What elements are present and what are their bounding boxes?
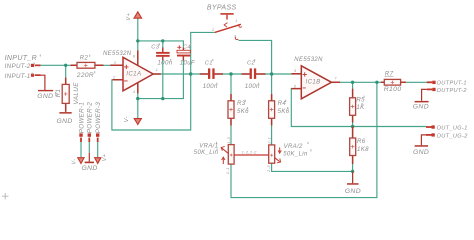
pin OUT_UG-1: [426, 125, 435, 128]
wire C2 to IC1B pin5: [256, 73, 301, 75]
svg-text:8: 8: [133, 53, 136, 58]
origin cross mark: [2, 193, 8, 199]
svg-text:C2: C2: [247, 60, 256, 66]
wire C1 to C2: [214, 73, 249, 75]
wire pot1 bottom rail up to output: [231, 82, 377, 197]
svg-text:2: 2: [211, 27, 215, 32]
wire switch pin3 to R4 node: [239, 40, 272, 74]
svg-text:5: 5: [294, 68, 297, 73]
svg-text:GND: GND: [413, 149, 429, 156]
svg-text:R4: R4: [278, 100, 287, 107]
svg-text:R100: R100: [384, 86, 402, 93]
svg-text:100n: 100n: [245, 83, 260, 90]
svg-text:OUT_UG-2: OUT_UG-2: [437, 133, 469, 139]
svg-text:NE5532N: NE5532N: [294, 57, 323, 63]
wire R1 column: [65, 65, 67, 78]
ground GND at POWER-2: [88, 153, 90, 162]
potentiometer VRA/1: [194, 137, 269, 175]
potentiometer VRA/2: [266, 137, 308, 173]
svg-text:R6: R6: [357, 138, 366, 145]
svg-text:GND: GND: [413, 103, 429, 110]
wire pot2 bottom to R6 bottom node: [272, 163, 353, 171]
wire IC1B feedback to OUT_UG-1: [291, 89, 426, 127]
svg-text:V-: V-: [71, 159, 77, 165]
svg-text:220R: 220R: [76, 72, 94, 79]
junction V- node at IC1A pin 4: [136, 97, 139, 100]
svg-text:1K8: 1K8: [357, 146, 369, 153]
capacitor C4 (polarized): [177, 44, 196, 66]
svg-text:2: 2: [112, 75, 116, 80]
svg-text:1-3: 1-3: [226, 137, 231, 144]
svg-text:3: 3: [234, 34, 237, 39]
wire pot1 top: [230, 145, 232, 164]
resistor R6: [350, 127, 369, 165]
svg-text:4: 4: [133, 89, 136, 94]
svg-text:POWER-2: POWER-2: [87, 102, 94, 134]
pin INPUT-2: [31, 64, 41, 67]
svg-text:NE5532N: NE5532N: [103, 51, 132, 57]
wire C3 top drop: [162, 41, 164, 52]
junction R6 bottom / pot2 ground node: [351, 170, 354, 173]
svg-text:VRA/2: VRA/2: [284, 144, 303, 150]
resistor R3: [228, 94, 249, 126]
wire POWER-2 down: [88, 142, 90, 153]
svg-text:VRA/1: VRA/1: [199, 144, 218, 150]
op-amp IC1A: [103, 51, 161, 94]
svg-text:C4: C4: [183, 44, 191, 50]
svg-text:100n: 100n: [203, 83, 218, 90]
svg-text:2-1: 2-1: [266, 137, 271, 145]
wire IC1B output to OUTPUT-1: [332, 81, 428, 83]
wire IC1A pin4 down to V-: [137, 91, 139, 119]
svg-text:7: 7: [334, 76, 337, 81]
junction C2 / R4 / IC1B input node: [270, 72, 273, 75]
supply V- arrow at POWER-1: [78, 158, 84, 164]
label tick marks (decorative): [32, 43, 365, 151]
wire POWER-1 down: [80, 142, 82, 158]
junction C1-C2 / R3 node: [229, 72, 232, 75]
pin OUT_UG-2: [426, 133, 435, 136]
svg-text:2-3: 2-3: [266, 165, 271, 173]
svg-text:IC1A: IC1A: [126, 70, 141, 77]
svg-text:V+: V+: [102, 154, 108, 161]
svg-text:50K_Lin: 50K_Lin: [194, 150, 219, 156]
pin POWER-1: [79, 133, 82, 142]
wire IC1A feedback loop pin2 down around to output node: [112, 32, 215, 130]
svg-text:10uF: 10uF: [180, 60, 196, 67]
svg-text:V-: V-: [124, 116, 130, 122]
junction IC1A output / bypass switch: [189, 72, 192, 75]
svg-text:3: 3: [114, 60, 117, 65]
wire R2 to IC1A pin3: [95, 64, 121, 66]
svg-text:VALUE: VALUE: [73, 82, 80, 105]
resistor R5: [350, 89, 366, 123]
svg-text:R3: R3: [237, 100, 246, 107]
svg-text:1K: 1K: [356, 104, 365, 111]
svg-text:OUT_UG-1: OUT_UG-1: [437, 126, 468, 132]
pin POWER-2: [88, 133, 91, 142]
pin POWER-3: [96, 133, 99, 142]
op-amp IC1B: [291, 57, 340, 99]
svg-text:GND: GND: [82, 165, 98, 172]
svg-text:POWER-1: POWER-1: [78, 102, 85, 133]
wire C3 bottom drop: [162, 57, 164, 99]
svg-text:C3: C3: [151, 44, 160, 50]
svg-text:OUTPUT-2: OUTPUT-2: [437, 88, 468, 94]
wire IC1A output row: [153, 73, 208, 75]
wire OUTPUT-2 to GND: [422, 89, 427, 101]
ground GND at OUT_UG-2: [415, 145, 429, 147]
svg-text:C1: C1: [205, 60, 213, 66]
pin OUTPUT-2: [427, 88, 436, 91]
ground GND at INPUT-1: [38, 90, 53, 91]
wire R5 R6 column: [352, 82, 354, 183]
svg-text:GND: GND: [57, 118, 73, 125]
switch BYPASS: [207, 5, 242, 40]
svg-text:POWER-3: POWER-3: [95, 102, 102, 134]
wire input row to R2: [41, 64, 78, 66]
junction V+ rail at C3 top: [161, 39, 164, 42]
junction R5-R6 feedback node: [351, 125, 354, 128]
svg-text:INPUT-1: INPUT-1: [5, 73, 31, 80]
resistor R2: [71, 56, 104, 80]
svg-text:GND: GND: [37, 93, 53, 100]
ground GND at R6: [352, 171, 354, 183]
supply V+ arrow at POWER-3: [95, 158, 101, 164]
wire R3 column: [230, 74, 232, 145]
svg-text:BYPASS: BYPASS: [207, 5, 237, 12]
svg-text:50K_Lin: 50K_Lin: [283, 152, 308, 158]
wire V+ down to rail: [137, 18, 139, 41]
svg-text:1: 1: [235, 18, 238, 23]
resistor R7: [381, 70, 406, 93]
junction R1/R2 input node: [64, 64, 67, 67]
svg-text:INPUT-2: INPUT-2: [5, 63, 31, 70]
svg-text:1-2,2-2: 1-2,2-2: [242, 150, 258, 155]
svg-text:1-1: 1-1: [225, 167, 230, 174]
svg-text:INPUT_R: INPUT_R: [5, 55, 37, 62]
wire R4 column: [271, 74, 273, 145]
wire top rail to C3 C4 tops: [138, 41, 184, 50]
svg-text:6: 6: [294, 83, 297, 88]
wire IC1A pin8: [137, 41, 139, 58]
resistor R1: [56, 78, 80, 112]
pin OUTPUT-1: [427, 81, 436, 84]
wire OUT_UG-2 to GND: [421, 135, 426, 145]
svg-text:GND: GND: [345, 188, 361, 195]
capacitor C3: [151, 44, 173, 66]
ground GND at OUTPUT-2: [415, 101, 429, 103]
wire POWER-3 down: [97, 142, 99, 158]
svg-text:1: 1: [156, 67, 159, 72]
junction V- node at C3 bottom: [161, 97, 164, 100]
wire pot2 top: [271, 145, 273, 163]
capacitor C1: [200, 60, 223, 90]
junction IC1B output / R5: [351, 81, 354, 84]
junction output row / bottom riser: [375, 81, 378, 84]
svg-text:IC1B: IC1B: [306, 78, 321, 85]
resistor R4: [269, 94, 290, 126]
junction V+ rail at IC1A pin 8: [136, 39, 139, 42]
wire INPUT-1 to GND: [41, 75, 45, 90]
wire pin4 node to C4 bottom: [138, 57, 184, 99]
ground GND at R1: [59, 112, 71, 114]
svg-text:R2: R2: [80, 56, 89, 62]
capacitor C2: [242, 60, 266, 90]
pin INPUT-1: [31, 74, 41, 77]
svg-text:OUTPUT-1: OUTPUT-1: [437, 80, 467, 86]
supply V- arrow under IC1A: [134, 119, 141, 125]
supply V+ arrow top: [134, 12, 142, 18]
svg-text:V+: V+: [126, 13, 132, 21]
